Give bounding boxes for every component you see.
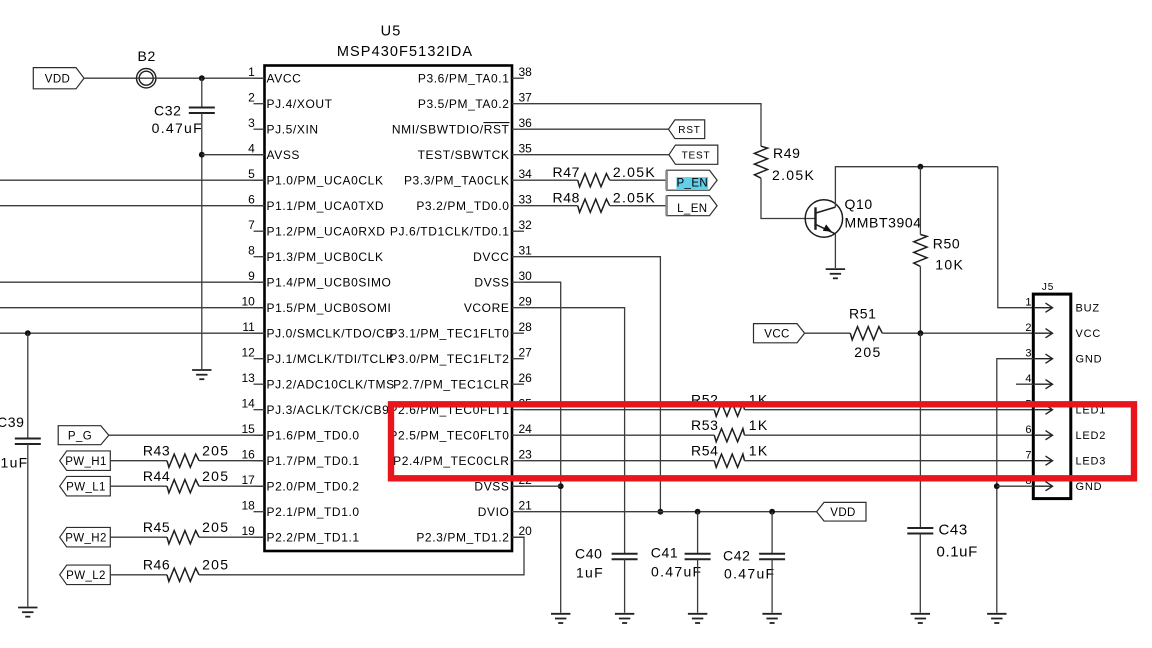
svg-text:P3.1/PM_TEC1FLT0: P3.1/PM_TEC1FLT0 xyxy=(389,327,509,341)
svg-text:0.47uF: 0.47uF xyxy=(651,564,702,580)
svg-text:36: 36 xyxy=(519,116,533,130)
wire pin 25 to R52 xyxy=(524,409,714,411)
J5 pin 5 arrow xyxy=(1035,405,1053,414)
wire R52 to J5 xyxy=(745,409,1034,411)
resistor R47 xyxy=(578,174,610,187)
svg-text:P1.2/PM_UCA0RXD: P1.2/PM_UCA0RXD xyxy=(267,225,386,239)
svg-text:20: 20 xyxy=(519,524,533,538)
resistor R45 xyxy=(167,531,199,544)
pin 6 stub (P1.1/PM_UCA0TXD) xyxy=(254,205,265,207)
svg-text:34: 34 xyxy=(519,167,533,181)
wire R50 bottom xyxy=(919,267,921,334)
wire R53 to J5 xyxy=(745,434,1034,436)
ground (C42) xyxy=(762,614,781,623)
wire Q10 emitter xyxy=(834,234,836,268)
wire C42 top xyxy=(771,512,773,554)
wire DVSS down xyxy=(524,282,561,613)
red highlight annotation box xyxy=(391,404,1134,478)
svg-text:Q10: Q10 xyxy=(845,196,873,212)
wire pin 23 to R54 xyxy=(524,460,714,462)
wire P1.1 (pin 6) net xyxy=(0,205,265,207)
pin 8 stub (P1.3/PM_UCB0CLK) xyxy=(254,256,265,258)
svg-text:PJ.2/ADC10CLK/TMS: PJ.2/ADC10CLK/TMS xyxy=(267,378,395,392)
pin 25 stub (P2.6/PM_TEC0FLT1) xyxy=(512,409,524,411)
net flag PW_L1 xyxy=(60,476,111,496)
capacitor C32 xyxy=(189,108,215,114)
svg-text:21: 21 xyxy=(519,499,533,513)
svg-text:P3.5/PM_TA0.2: P3.5/PM_TA0.2 xyxy=(418,97,510,111)
capacitor C41 xyxy=(685,554,711,560)
svg-text:P1.0/PM_UCA0CLK: P1.0/PM_UCA0CLK xyxy=(267,174,384,188)
svg-text:1K: 1K xyxy=(749,417,769,433)
svg-text:0.1uF: 0.1uF xyxy=(937,544,978,561)
overline on RST (pin 36) xyxy=(484,122,510,124)
svg-text:MMBT3904: MMBT3904 xyxy=(845,215,922,231)
wire R47 to P_EN xyxy=(610,179,667,181)
pin 11 stub (PJ.0/SMCLK/TDO/CB) xyxy=(254,332,265,334)
pin 2 stub (PJ.4/XOUT) xyxy=(254,103,265,105)
svg-text:P2.3/PM_TD1.2: P2.3/PM_TD1.2 xyxy=(416,531,509,545)
svg-text:C42: C42 xyxy=(723,548,750,564)
pin 34 stub (P3.3/PM_TA0CLK) xyxy=(512,179,524,181)
pin 28 stub (P3.1/PM_TEC1FLT0) xyxy=(512,332,524,334)
wire pin 36 to RST xyxy=(524,128,669,130)
svg-text:3: 3 xyxy=(248,116,255,130)
ferrite bead B2 xyxy=(137,69,156,88)
svg-text:R48: R48 xyxy=(553,189,580,205)
svg-text:205: 205 xyxy=(854,344,881,360)
svg-text:P1.5/PM_UCB0SOMI: P1.5/PM_UCB0SOMI xyxy=(267,301,392,315)
svg-text:U5: U5 xyxy=(381,24,402,40)
junction dot AVSS xyxy=(199,152,205,158)
svg-text:33: 33 xyxy=(519,193,533,207)
svg-text:DVCC: DVCC xyxy=(473,250,509,264)
J5 pin 6 arrow xyxy=(1035,431,1053,440)
svg-text:23: 23 xyxy=(519,448,533,462)
pin 24 stub (P2.5/PM_TEC0FLT0) xyxy=(512,434,524,436)
svg-text:29: 29 xyxy=(519,295,533,309)
ground (C40) xyxy=(615,614,634,623)
svg-text:P_EN: P_EN xyxy=(676,178,708,190)
ground (C32/AVSS) xyxy=(192,370,211,379)
svg-text:205: 205 xyxy=(202,519,229,535)
wire C43 bottom xyxy=(919,534,921,613)
svg-text:1uF: 1uF xyxy=(576,564,604,580)
svg-text:P1.3/PM_UCB0CLK: P1.3/PM_UCB0CLK xyxy=(267,250,384,264)
J5 pin 4 arrow xyxy=(1035,380,1053,389)
net flag P_G xyxy=(58,426,109,445)
svg-text:R46: R46 xyxy=(143,557,170,573)
wire R51 to J5 pin 2 xyxy=(882,332,1033,334)
svg-text:P3.6/PM_TA0.1: P3.6/PM_TA0.1 xyxy=(418,72,510,86)
svg-text:PW_L2: PW_L2 xyxy=(66,570,106,582)
capacitor C42 xyxy=(759,554,785,560)
svg-text:2.05K: 2.05K xyxy=(613,189,656,205)
wire pin 33 to R48 xyxy=(524,205,578,207)
svg-text:35: 35 xyxy=(519,142,533,156)
svg-text:0.47uF: 0.47uF xyxy=(152,120,203,136)
junction dot C39 xyxy=(25,330,31,336)
J5 pin 7 arrow xyxy=(1035,456,1053,465)
svg-text:9: 9 xyxy=(248,269,255,283)
svg-text:P3.2/PM_TD0.0: P3.2/PM_TD0.0 xyxy=(416,199,509,213)
svg-text:DVSS: DVSS xyxy=(474,276,509,290)
junction dot C42 xyxy=(769,509,775,515)
svg-text:30: 30 xyxy=(519,269,533,283)
pin 26 stub (P2.7/PM_TEC1CLR) xyxy=(512,383,524,385)
svg-text:TEST: TEST xyxy=(682,150,711,161)
wire J5 pin 8 stub xyxy=(997,485,1034,487)
wire BUZ to J5 pin 1 xyxy=(998,167,1033,308)
svg-text:4: 4 xyxy=(248,142,255,156)
power flag VDD (net VDD) xyxy=(33,68,84,89)
svg-text:10K: 10K xyxy=(935,257,964,273)
net flag PW_H2 xyxy=(60,527,111,547)
svg-text:6: 6 xyxy=(248,193,255,207)
svg-text:P1.6/PM_TD0.0: P1.6/PM_TD0.0 xyxy=(267,429,360,443)
wire R49 to Q10 base xyxy=(761,178,817,218)
net flag VCC xyxy=(754,324,805,343)
svg-text:2.05K: 2.05K xyxy=(772,167,815,183)
resistor R53 xyxy=(714,429,744,442)
pin 37 stub (P3.5/PM_TA0.2) xyxy=(512,103,524,105)
svg-text:RST: RST xyxy=(678,125,700,136)
svg-text:R51: R51 xyxy=(849,305,876,321)
ground (C39) xyxy=(18,608,37,617)
svg-text:17: 17 xyxy=(241,473,255,487)
net flag RST xyxy=(669,120,705,139)
J5 pin 2 arrow xyxy=(1035,329,1053,338)
svg-text:VCC: VCC xyxy=(1076,328,1102,340)
wire P_G to pin 15 xyxy=(109,434,265,436)
svg-text:LED3: LED3 xyxy=(1076,456,1107,468)
svg-text:P2.4/PM_TEC0CLR: P2.4/PM_TEC0CLR xyxy=(393,454,509,468)
wire VDD to B2 xyxy=(84,77,136,79)
wire C41 top xyxy=(697,512,699,554)
svg-text:10: 10 xyxy=(241,295,255,309)
resistor R54 xyxy=(714,454,744,467)
pin 35 stub (TEST/SBWTCK) xyxy=(512,154,524,156)
power flag VDD (DVIO) xyxy=(817,502,866,521)
svg-text:DVIO: DVIO xyxy=(478,505,510,519)
resistor R52 xyxy=(714,403,744,416)
pin 31 stub (DVCC) xyxy=(512,256,524,258)
svg-text:P2.2/PM_TD1.1: P2.2/PM_TD1.1 xyxy=(267,531,360,545)
svg-text:C43: C43 xyxy=(939,522,968,539)
wire VCORE down xyxy=(524,308,625,554)
resistor R48 xyxy=(578,199,610,212)
svg-text:AVCC: AVCC xyxy=(267,72,302,86)
svg-text:AVSS: AVSS xyxy=(267,148,301,162)
wire C43 top xyxy=(919,333,921,528)
pin 5 stub (P1.0/PM_UCA0CLK) xyxy=(254,179,265,181)
J5 pin 8 arrow xyxy=(1035,482,1053,491)
pin 17 stub (P2.0/PM_TD0.2) xyxy=(254,485,265,487)
capacitor C39 xyxy=(15,439,41,445)
svg-text:24: 24 xyxy=(519,422,533,436)
svg-text:P2.0/PM_TD0.2: P2.0/PM_TD0.2 xyxy=(267,480,360,494)
svg-text:1K: 1K xyxy=(749,443,769,459)
pin 29 stub (VCORE) xyxy=(512,307,524,309)
net flag TEST xyxy=(669,145,718,164)
svg-text:J5: J5 xyxy=(1042,282,1054,293)
svg-text:31: 31 xyxy=(519,244,533,258)
svg-text:R50: R50 xyxy=(933,235,960,251)
wire R43 to pin 16 xyxy=(199,460,265,462)
svg-text:R43: R43 xyxy=(143,442,170,458)
wire pin 24 to R53 xyxy=(524,434,714,436)
net flag L_EN xyxy=(667,196,718,216)
svg-text:NMI/SBWTDIO/RST: NMI/SBWTDIO/RST xyxy=(392,123,510,137)
wire PJ.0 (pin 11) net xyxy=(0,332,265,334)
pin 21 stub (DVIO) xyxy=(512,511,524,513)
wire C39 bottom xyxy=(27,444,29,607)
svg-text:C41: C41 xyxy=(651,545,678,561)
junction dot AVCC/C32 xyxy=(199,75,205,81)
svg-text:P2.7/PM_TEC1CLR: P2.7/PM_TEC1CLR xyxy=(393,378,509,392)
svg-text:PW_L1: PW_L1 xyxy=(66,481,106,493)
svg-text:P3.3/PM_TA0CLK: P3.3/PM_TA0CLK xyxy=(404,174,510,188)
wire R54 to J5 xyxy=(745,460,1034,462)
junction dot J5 pin8 GND xyxy=(994,483,1000,489)
resistor R43 xyxy=(167,454,199,467)
svg-text:1: 1 xyxy=(248,65,255,79)
junction dot C41 xyxy=(695,509,701,515)
connector J5 outline xyxy=(1033,294,1071,499)
wire R44 to pin 17 xyxy=(199,485,265,487)
svg-text:2.05K: 2.05K xyxy=(613,164,656,180)
pin 23 stub (P2.4/PM_TEC0CLR) xyxy=(512,460,524,462)
pin 16 stub (P1.7/PM_TD0.1) xyxy=(254,460,265,462)
svg-text:PW_H2: PW_H2 xyxy=(65,532,107,544)
svg-text:5: 5 xyxy=(248,167,255,181)
pin 22 stub (DVSS) xyxy=(512,485,524,487)
wire R45 to pin 19 xyxy=(199,536,265,538)
svg-text:1uF: 1uF xyxy=(1,455,29,471)
pin 12 stub (PJ.1/MCLK/TDI/TCLK) xyxy=(254,358,265,360)
pin 20 stub (P2.3/PM_TD1.2) xyxy=(512,536,524,538)
svg-text:PJ.6/TD1CLK/TD0.1: PJ.6/TD1CLK/TD0.1 xyxy=(390,225,510,239)
wire R46 to pin 20 xyxy=(199,537,524,575)
svg-text:11: 11 xyxy=(242,320,255,334)
wire P1.0 (pin 5) net xyxy=(0,179,265,181)
wire AVSS pin 4 xyxy=(202,154,265,156)
ground (Q10 emitter) xyxy=(826,269,845,278)
svg-text:L_EN: L_EN xyxy=(677,203,707,215)
wire PW_H2 to R45 xyxy=(110,536,167,538)
svg-text:16: 16 xyxy=(241,448,255,462)
svg-text:R47: R47 xyxy=(553,164,580,180)
resistor R51 xyxy=(850,327,882,340)
svg-text:18: 18 xyxy=(241,499,255,513)
junction dot collector/R50 xyxy=(918,164,924,170)
wire VCC to R51 xyxy=(805,332,851,334)
wire P1.5 (pin 10) net xyxy=(0,307,265,309)
svg-text:BUZ: BUZ xyxy=(1076,303,1100,315)
svg-text:DVSS: DVSS xyxy=(474,480,509,494)
pin 14 stub (PJ.3/ACLK/TCK/CB9) xyxy=(254,409,265,411)
pin 9 stub (P1.4/PM_UCB0SIMO) xyxy=(254,281,265,283)
transistor Q10 xyxy=(805,200,842,237)
svg-text:15: 15 xyxy=(241,422,255,436)
wire B2 to AVCC pin 1 xyxy=(156,77,265,79)
wire C32 to AVSS and ground xyxy=(201,113,203,369)
svg-text:R44: R44 xyxy=(143,468,170,484)
capacitor C43 xyxy=(907,528,933,534)
wire C39 top xyxy=(27,333,29,438)
wire J5 GND net xyxy=(997,359,1034,613)
wire P1.4 (pin 9) net xyxy=(0,281,265,283)
wire R50 top xyxy=(919,167,921,235)
svg-text:VDD: VDD xyxy=(830,507,855,519)
J5 pin 3 arrow xyxy=(1035,354,1053,363)
svg-text:VDD: VDD xyxy=(45,73,70,85)
net flag PW_L2 xyxy=(60,565,111,585)
J5 pin 1 arrow xyxy=(1035,303,1053,312)
svg-text:C32: C32 xyxy=(154,102,181,118)
wire DVCC down xyxy=(524,257,660,512)
net flag PW_H1 xyxy=(60,451,111,471)
svg-text:7: 7 xyxy=(248,218,255,232)
svg-text:PJ.4/XOUT: PJ.4/XOUT xyxy=(267,97,333,111)
wire C41 bottom xyxy=(697,559,699,612)
svg-text:14: 14 xyxy=(241,397,255,411)
svg-text:P1.1/PM_UCA0TXD: P1.1/PM_UCA0TXD xyxy=(267,199,385,213)
svg-text:6: 6 xyxy=(1025,424,1031,436)
pin 1 stub (AVCC) xyxy=(254,77,265,79)
wire pin 35 to TEST xyxy=(524,154,669,156)
svg-text:VCORE: VCORE xyxy=(464,301,510,315)
J5 pin 4 stub xyxy=(1016,383,1033,385)
pin 38 stub (P3.6/PM_TA0.1) xyxy=(512,77,524,79)
resistor R46 xyxy=(167,568,199,581)
wire pin 22 stub to DVSS xyxy=(512,485,561,487)
svg-text:C40: C40 xyxy=(575,546,602,562)
pin 30 stub (DVSS) xyxy=(512,281,524,283)
svg-text:12: 12 xyxy=(241,346,255,360)
svg-text:VCC: VCC xyxy=(764,328,789,340)
svg-text:P1.7/PM_TD0.1: P1.7/PM_TD0.1 xyxy=(267,454,360,468)
wire C32 top xyxy=(201,78,203,107)
svg-text:37: 37 xyxy=(519,91,533,105)
svg-text:P3.0/PM_TEC1FLT2: P3.0/PM_TEC1FLT2 xyxy=(389,352,509,366)
svg-text:8: 8 xyxy=(248,244,255,258)
pin 18 stub (P2.1/PM_TD1.0) xyxy=(254,511,265,513)
ground (DVSS) xyxy=(551,614,570,623)
ground (J5 GND) xyxy=(987,614,1006,623)
junction dot DVCC/DVIO xyxy=(658,509,664,515)
pin 33 stub (P3.2/PM_TD0.0) xyxy=(512,205,524,207)
svg-text:205: 205 xyxy=(202,557,229,573)
svg-text:PJ.5/XIN: PJ.5/XIN xyxy=(267,123,319,137)
pin 10 stub (P1.5/PM_UCB0SOMI) xyxy=(254,307,265,309)
svg-text:P2.5/PM_TEC0FLT0: P2.5/PM_TEC0FLT0 xyxy=(389,429,509,443)
ground (C41) xyxy=(688,614,707,623)
svg-text:MSP430F5132IDA: MSP430F5132IDA xyxy=(337,44,473,60)
wire C40 bottom xyxy=(624,559,626,612)
wire pin 34 to R47 xyxy=(524,179,578,181)
ground (C43) xyxy=(911,614,930,623)
pin 32 stub (PJ.6/TD1CLK/TD0.1) xyxy=(512,230,524,232)
svg-text:TEST/SBWTCK: TEST/SBWTCK xyxy=(418,148,510,162)
wire PW_H1 to R43 xyxy=(110,460,167,462)
pin 15 stub (P1.6/PM_TD0.0) xyxy=(254,434,265,436)
resistor R44 xyxy=(167,480,199,493)
pin 36 stub (NMI/SBWTDIO/RST) xyxy=(512,128,524,130)
svg-text:P1.4/PM_UCB0SIMO: P1.4/PM_UCB0SIMO xyxy=(267,276,392,290)
svg-text:P_G: P_G xyxy=(68,430,92,442)
pin 3 stub (PJ.5/XIN) xyxy=(254,128,265,130)
pin 13 stub (PJ.2/ADC10CLK/TMS) xyxy=(254,383,265,385)
resistor R50 xyxy=(914,235,927,267)
svg-text:R53: R53 xyxy=(691,417,718,433)
svg-text:2: 2 xyxy=(1025,322,1031,334)
svg-text:26: 26 xyxy=(519,371,533,385)
wire Q10 collector xyxy=(835,167,997,207)
wire DVIO to VDD xyxy=(524,511,817,513)
junction dot R51/R50/C43 xyxy=(918,330,924,336)
svg-text:3: 3 xyxy=(1025,348,1031,360)
svg-text:19: 19 xyxy=(241,524,255,538)
net flag P_EN (highlighted) xyxy=(667,170,718,190)
svg-text:PJ.0/SMCLK/TDO/CB: PJ.0/SMCLK/TDO/CB xyxy=(267,327,395,341)
svg-text:7: 7 xyxy=(1025,450,1031,462)
svg-text:PW_H1: PW_H1 xyxy=(65,456,107,468)
pin 4 stub (AVSS) xyxy=(254,154,265,156)
wire PW_L1 to R44 xyxy=(110,485,167,487)
svg-text:205: 205 xyxy=(202,442,229,458)
pin 7 stub (P1.2/PM_UCA0RXD) xyxy=(254,230,265,232)
svg-text:205: 205 xyxy=(202,468,229,484)
svg-text:13: 13 xyxy=(241,371,255,385)
resistor R49 xyxy=(754,146,767,178)
wire PW_L2 to R46 xyxy=(110,574,167,576)
svg-text:28: 28 xyxy=(519,320,533,334)
junction dot DVSS/pin22 xyxy=(558,483,564,489)
svg-text:32: 32 xyxy=(519,218,533,232)
pin 19 stub (P2.2/PM_TD1.1) xyxy=(254,536,265,538)
IC U5 MSP430F5132IDA body xyxy=(265,66,513,552)
wire C42 bottom xyxy=(771,559,773,612)
svg-text:0.47uF: 0.47uF xyxy=(724,566,775,582)
svg-text:38: 38 xyxy=(519,65,533,79)
svg-text:2: 2 xyxy=(248,91,255,105)
svg-text:R54: R54 xyxy=(691,443,718,459)
svg-text:PJ.1/MCLK/TDI/TCLK: PJ.1/MCLK/TDI/TCLK xyxy=(267,352,395,366)
svg-text:P2.1/PM_TD1.0: P2.1/PM_TD1.0 xyxy=(267,505,360,519)
svg-text:GND: GND xyxy=(1076,354,1103,366)
svg-text:27: 27 xyxy=(519,346,533,360)
svg-text:R45: R45 xyxy=(143,519,170,535)
svg-text:R49: R49 xyxy=(773,145,800,161)
svg-text:C39: C39 xyxy=(0,414,24,430)
capacitor C40 xyxy=(612,554,638,560)
pin 27 stub (P3.0/PM_TEC1FLT2) xyxy=(512,358,524,360)
svg-text:1: 1 xyxy=(1025,297,1031,309)
wire R48 to L_EN xyxy=(610,205,667,207)
svg-text:LED2: LED2 xyxy=(1076,430,1107,442)
svg-text:PJ.3/ACLK/TCK/CB9: PJ.3/ACLK/TCK/CB9 xyxy=(267,403,390,417)
svg-text:4: 4 xyxy=(1025,373,1031,385)
svg-text:B2: B2 xyxy=(138,48,156,64)
wire pin 37 to R49 xyxy=(524,104,761,147)
svg-text:GND: GND xyxy=(1076,481,1103,493)
